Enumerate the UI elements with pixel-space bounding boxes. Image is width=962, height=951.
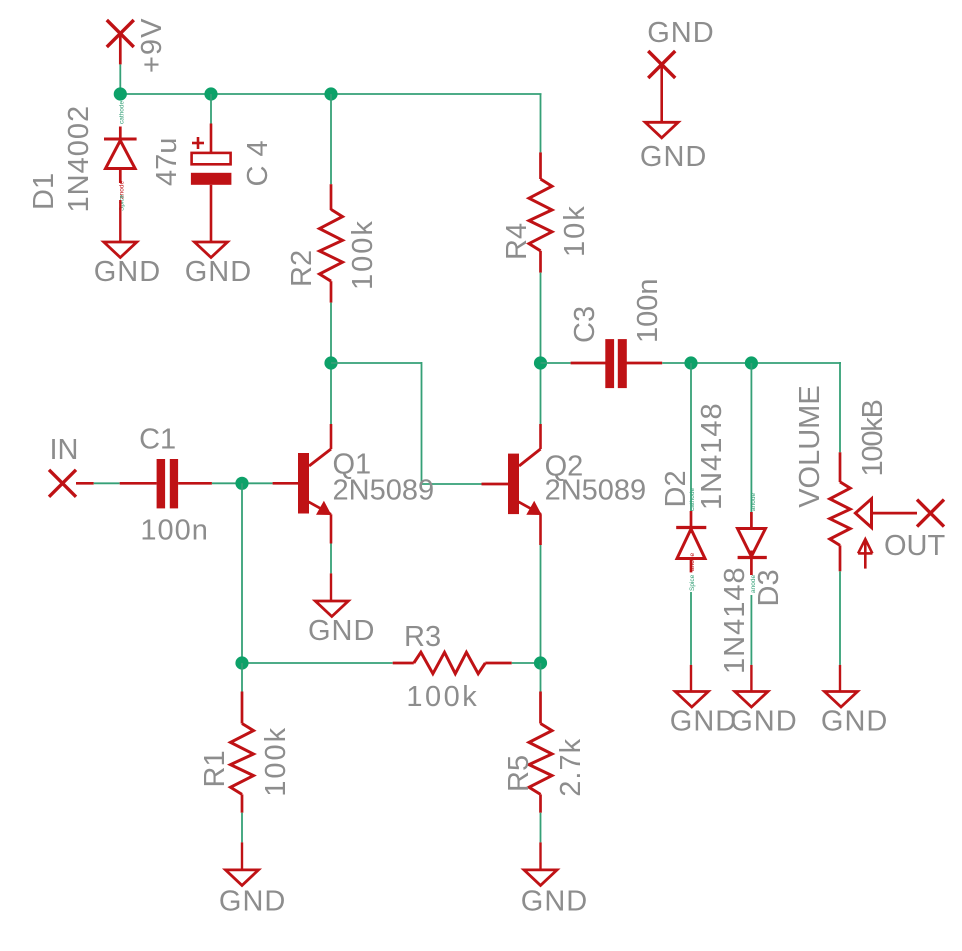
capacitor C1 [120,459,212,508]
resistor R2 [320,184,343,302]
junction dot R5 node [534,656,547,669]
wire +9V to rail [119,64,121,94]
label C4 [242,131,274,186]
svg-text:GND: GND [521,886,588,918]
ground (D2) [675,692,708,708]
wire pot to ground [839,571,841,691]
label 1N4148 (D3) [719,566,751,674]
resistor R4 [529,152,552,272]
svg-text:100kB: 100kB [857,400,889,476]
svg-text:+9V: +9V [136,18,168,73]
label +9V [136,18,168,73]
label 100k (R2) [347,219,379,290]
ground pin [648,51,675,122]
junction dot Q1 base node [235,477,248,490]
pin tiny green (D1 bottom) [119,194,126,211]
wire IN to C1 [94,482,120,484]
svg-text:2N5089: 2N5089 [333,474,435,506]
svg-text:VOLUME: VOLUME [794,385,826,507]
svg-text:GND: GND [185,256,252,288]
wire down to volume [839,362,841,452]
label R3 [404,621,441,653]
ground (D1) [104,242,137,258]
capacitor C4 [191,124,232,243]
pin name anode (tiny) [119,181,126,199]
junction dot Q2 collector node [534,356,547,369]
label GND (Q1) [308,615,375,647]
diode D2 [676,511,706,572]
ground (Q1) [315,601,348,617]
label C1 [139,424,176,456]
label GND (C4) [185,256,252,288]
svg-text:47u: 47u [151,138,183,186]
pot up arrow [858,539,872,569]
diode D1 [104,127,137,184]
svg-text:1N4002: 1N4002 [63,105,95,213]
wire rail to R2 [330,94,332,184]
pin name tiny (D2 top) [689,487,696,511]
wire C4 to rail [210,94,212,124]
svg-text:C3: C3 [569,306,601,343]
svg-text:R5: R5 [503,755,535,792]
svg-text:1N4148: 1N4148 [719,566,751,674]
svg-text:100k: 100k [260,726,292,797]
wire R4 to node [540,273,542,424]
svg-text:anode: anode [689,553,696,571]
label IN [50,434,79,466]
bottom wire left [242,662,393,664]
diode D3 [738,512,767,575]
wire D3 to ground [750,595,752,692]
svg-text:GND: GND [821,706,888,738]
label 10k (R4) [559,204,591,257]
junction dot D2 [684,356,697,369]
svg-text:C1: C1 [139,424,176,456]
svg-text:R4: R4 [501,223,533,260]
label 2.7k (R5) [555,738,587,797]
wire C3 to output node [662,362,841,364]
wire Q2 emitter down [540,545,542,663]
svg-text:100k: 100k [347,219,379,290]
output pin OUT [917,500,944,527]
transistor Q1 [273,424,332,544]
wire R5 to ground [540,813,542,870]
svg-text:D2: D2 [660,470,692,507]
pin name tiny (D3 top) [750,493,757,511]
label C3 [569,306,601,343]
svg-text:2.7k: 2.7k [555,738,587,797]
bottom wire right [512,662,541,664]
potentiometer VOLUME [830,452,850,571]
wire Q1 emitter to ground [330,544,332,602]
svg-text:100k: 100k [406,681,479,713]
label 100k (R1) [260,726,292,797]
wire C1 to Q1 base [212,482,273,484]
wire R2 to node [330,303,332,424]
ground (D3) [735,692,768,708]
label GND (VOLUME) [821,706,888,738]
label Q1 [333,448,372,480]
svg-text:D3: D3 [753,569,785,606]
label R1 [199,750,231,787]
ground (R1) [226,870,259,886]
label VOLUME [794,385,826,507]
label GND (D3) [730,706,797,738]
svg-text:GND: GND [670,706,737,738]
ground (VOLUME) [825,692,858,708]
junction dot R1 node [235,656,248,669]
svg-text:2N5089: 2N5089 [545,474,647,506]
svg-text:IN: IN [50,434,79,466]
label GND (pin top) [647,17,714,49]
resistor R3 [393,652,512,673]
ground (C4) [195,242,228,258]
pin name tiny (D2 bottom) [689,553,696,591]
svg-text:GND: GND [308,615,375,647]
label D3 [753,569,785,606]
pin name cathode (tiny) [119,100,126,124]
resistor R1 [231,692,254,813]
svg-text:100n: 100n [140,515,209,547]
feedback wire [331,362,482,484]
svg-text:R3: R3 [404,621,441,653]
label D1 [28,173,60,210]
svg-text:GND: GND [730,706,797,738]
label Q2 [545,451,584,483]
label OUT [884,530,946,562]
svg-text:GND: GND [647,17,714,49]
svg-text:anode: anode [750,493,757,511]
label GND (R1) [219,886,286,918]
label 100n (C1) [140,515,209,547]
wire D2 to ground [690,592,692,692]
label R2 [286,250,318,287]
junction dot Q1 collector node [324,356,337,369]
label 1N4002 [63,105,95,213]
svg-text:1N4148: 1N4148 [696,402,728,510]
top power rail wire [120,93,541,95]
capacitor C3 [571,339,663,388]
svg-text:GND: GND [219,886,286,918]
wire node to R1 [241,663,243,692]
wire rail to R4 [540,94,542,152]
svg-text:R2: R2 [286,250,318,287]
label R4 [501,223,533,260]
svg-text:D1: D1 [28,173,60,210]
label 2N5089 (Q1) [333,474,435,506]
svg-text:C4: C4 [242,131,274,186]
pot wiper arrow [855,499,917,528]
supply pin +9V [107,20,134,64]
label 100k (R3) [406,681,479,713]
input pin IN [49,470,94,497]
svg-text:GND: GND [640,141,707,173]
junction dot V+ / D1 [114,87,127,100]
label GND (R5) [521,886,588,918]
wire node to C3 [541,362,571,364]
junction dot V+ / C4 [204,87,217,100]
wire D3 drop [750,363,752,512]
label 100n (C3) [632,278,664,343]
label GND (D2) [670,706,737,738]
label 100kB [857,400,889,476]
svg-text:cathode: cathode [119,100,126,124]
label D2 [660,470,692,507]
label GND (pin bottom) [640,141,707,173]
svg-text:Spice: Spice [689,574,696,591]
svg-text:GND: GND [94,256,161,288]
label 1N4148 (D2) [696,402,728,510]
label 47u [151,138,183,186]
resistor R5 [529,692,552,813]
junction dot D3 [745,356,758,369]
svg-text:100n: 100n [632,278,664,343]
transistor Q2 [482,424,542,545]
wire R1 to ground [241,813,243,870]
pin name tiny (D3 bottom) [750,575,757,593]
label 2N5089 (Q2) [545,474,647,506]
svg-text:OUT: OUT [884,530,946,562]
ground (pin) [645,122,678,138]
junction dot V+ / R2 [324,87,337,100]
svg-text:R1: R1 [199,750,231,787]
wire base node down [241,483,243,663]
wire D2 drop [690,363,692,512]
label R5 [503,755,535,792]
ground (R5) [524,870,557,886]
wire D1 to ground [119,200,121,242]
svg-text:10k: 10k [559,204,591,257]
label GND (D1) [94,256,161,288]
wire node to R5 [540,663,542,692]
